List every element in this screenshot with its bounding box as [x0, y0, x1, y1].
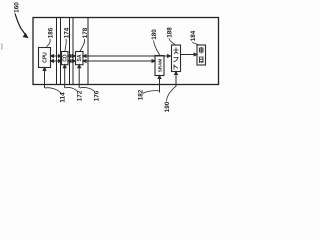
svg-text:184: 184 [190, 30, 197, 41]
svg-text:SA: SA [77, 54, 83, 61]
wire: external line 176 into box3 [78, 66, 80, 88]
block 186 (CPU) [39, 48, 51, 68]
wire: upper bus box1-box2 [52, 55, 61, 57]
wire: lower bus box2-box3 [69, 60, 75, 62]
fake kanji strokes (power) [199, 47, 204, 63]
wire: arrow from host block to power block [181, 53, 198, 56]
block 174 (CD) [62, 52, 69, 65]
reference numeral 182 with leader [137, 89, 159, 100]
wire: upper bus box3-host block [84, 55, 170, 57]
wire: vertical partition line pair 2 (left) [69, 18, 71, 85]
svg-text:186: 186 [47, 27, 54, 38]
svg-text:114: 114 [60, 92, 67, 103]
reference numeral 172 with leader [65, 87, 83, 101]
block 178 (SA) [76, 52, 84, 65]
reference numeral 184 with leader [190, 30, 199, 45]
reference numeral 178 with leader [80, 27, 89, 51]
wire: lower bus box3-SRAM [84, 60, 154, 62]
svg-text:176: 176 [93, 90, 100, 101]
svg-text:182: 182 [137, 89, 144, 100]
svg-text:CD: CD [62, 54, 68, 62]
block 184 (power supply) [197, 45, 206, 65]
svg-text:160: 160 [14, 2, 21, 13]
wire: external line 114 into box1 [43, 65, 81, 88]
bus: upper data bus segments with arrowheads [51, 55, 171, 63]
wire: single vertical partition line [87, 18, 89, 85]
svg-text:180: 180 [151, 29, 158, 40]
svg-text:CPU: CPU [43, 52, 49, 63]
fake katakana strokes (host) [174, 48, 179, 70]
reference numeral 180 with leader [151, 29, 160, 56]
reference numeral 176 with leader [80, 87, 100, 101]
reference numeral 186 with leader [47, 27, 55, 47]
wire: vertical partition line pair 2 (right) [72, 18, 74, 85]
svg-text:188: 188 [166, 27, 173, 38]
reference numeral 160 with arrow leader [14, 2, 29, 38]
reference numeral 188 with leader [166, 27, 175, 45]
block 182 (SRAM) [155, 56, 164, 76]
wire: upper bus box2-box3 [69, 55, 75, 57]
wire: external pin below SRAM [158, 76, 161, 93]
svg-text:172: 172 [76, 90, 83, 101]
reference numeral 190 with leader [164, 86, 176, 112]
wire: external line 190 into host block [175, 72, 178, 87]
wire: lower bus box1-box2 [52, 60, 61, 62]
block 188 (host I/F) [172, 45, 181, 72]
svg-text:174: 174 [63, 27, 70, 38]
wire: vertical partition line pair 1 (left) [56, 18, 58, 85]
svg-text:190: 190 [164, 101, 171, 112]
svg-text:178: 178 [82, 27, 89, 38]
outer device box 160 [33, 18, 219, 85]
reference numeral 174 with leader [63, 27, 70, 51]
scan artifact at left edge [1, 44, 4, 50]
wire: external line 172 into box2 [64, 66, 66, 88]
svg-text:SRAM: SRAM [157, 59, 162, 73]
reference numeral 114 with leader [45, 88, 67, 103]
wire: vertical partition line pair 1 (right) [60, 18, 62, 85]
